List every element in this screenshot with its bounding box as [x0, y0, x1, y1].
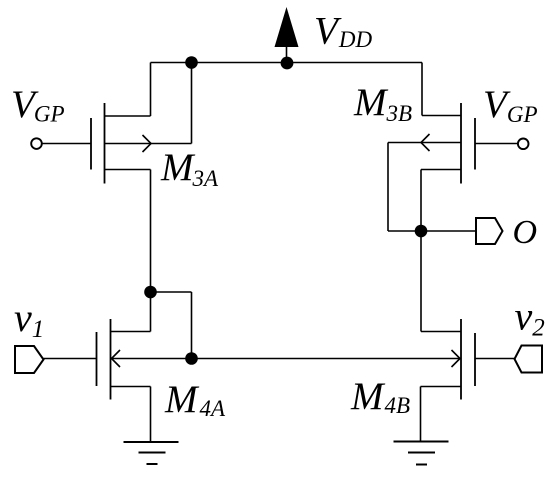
svg-text:M3A: M3A — [160, 146, 219, 191]
svg-text:VDD: VDD — [314, 10, 372, 53]
junction dot VDD node — [281, 57, 294, 70]
node junction dot on bulk line — [185, 352, 198, 365]
wire gate to VGP right — [475, 143, 518, 145]
transistor M4A — [97, 319, 151, 442]
transistor M3A — [91, 63, 192, 184]
terminal VGP right circle — [518, 139, 529, 150]
port v1 — [15, 346, 44, 373]
wire VGP left to gate — [42, 143, 91, 145]
wire bulk line between M4A and M4B — [111, 358, 462, 360]
svg-text:M4A: M4A — [164, 378, 226, 421]
svg-text:VGP: VGP — [11, 83, 65, 127]
wire M3A drain down to M4A drain — [150, 170, 152, 332]
power VDD arrow — [275, 7, 299, 63]
svg-text:v2: v2 — [515, 294, 545, 342]
svg-text:M3B: M3B — [353, 81, 412, 126]
arrow bulk left — [112, 350, 121, 367]
arrow bulk right — [452, 350, 461, 367]
port O — [476, 218, 503, 244]
svg-text:VGP: VGP — [483, 83, 538, 127]
node junction dot left rail — [185, 56, 198, 69]
node output junction dot — [415, 225, 428, 238]
wire output node to port O — [421, 230, 476, 232]
terminal VGP left circle — [31, 138, 42, 149]
transistor M4B — [421, 319, 476, 441]
wire jog from left mid node to bulk line — [151, 292, 192, 359]
wire v1 to gate M4A — [44, 358, 97, 360]
port v2 — [515, 346, 543, 373]
wire top rail — [151, 62, 423, 64]
svg-text:v1: v1 — [14, 295, 44, 343]
ground left — [124, 442, 179, 464]
ground right — [394, 442, 449, 465]
svg-text:O: O — [513, 214, 538, 251]
node junction dot left mid — [144, 286, 157, 299]
svg-text:M4B: M4B — [350, 375, 410, 418]
wire gate M4B to v2 — [475, 358, 515, 360]
wire output node down to M4B drain — [420, 231, 422, 332]
transistor M3B — [388, 63, 475, 232]
